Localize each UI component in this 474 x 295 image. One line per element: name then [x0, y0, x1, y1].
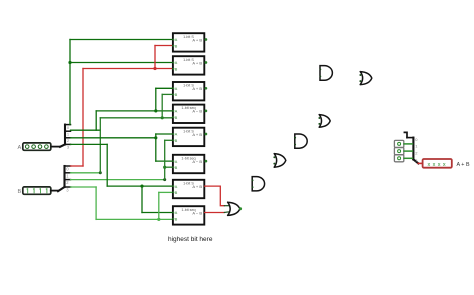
- junction net B1: [161, 116, 164, 119]
- subcircuit U2 (1-bit S): [172, 56, 204, 74]
- pin P2 (result bit 2): [394, 148, 403, 155]
- output dot U6: [205, 160, 208, 163]
- wire net B1 riser: [99, 118, 101, 173]
- svg-text:A: A: [175, 159, 178, 164]
- wire G7 input leg 2: [224, 211, 228, 214]
- wire net B0 vertical: [82, 69, 84, 167]
- wire net B3 to U8.B: [96, 218, 172, 220]
- svg-text:A: A: [175, 184, 178, 189]
- svg-text:highest bit here: highest bit here: [168, 236, 213, 243]
- wire combiner bit0 stub: [404, 132, 407, 137]
- svg-text:A: A: [175, 132, 178, 137]
- wire net B1 to U4.B: [100, 117, 172, 119]
- wire net A0 to U2.A: [70, 62, 173, 64]
- wire net B2 endpoint: [163, 178, 166, 181]
- svg-text:A: A: [175, 60, 178, 65]
- svg-text:B: B: [175, 92, 178, 97]
- splitter B bit numbers: [66, 167, 69, 193]
- wire net A3 to U8.A: [142, 212, 173, 214]
- svg-text:A + B: A + B: [192, 60, 202, 65]
- wire net A1 riser2: [155, 88, 157, 111]
- wire net B0 riser: [154, 46, 156, 69]
- junction net A1: [154, 109, 157, 112]
- wire net B1 to U3.B: [162, 93, 172, 95]
- svg-text:B: B: [18, 189, 22, 195]
- subcircuit U4 (1-bit seq): [172, 105, 204, 123]
- svg-text:A − B: A − B: [192, 109, 202, 114]
- wire net B0 to U1.B: [155, 45, 173, 47]
- splitter A (4-bit fanout): [60, 125, 71, 147]
- output dot U3: [205, 87, 208, 90]
- svg-text:B: B: [175, 115, 178, 120]
- wire combiner to output pin: [418, 162, 422, 164]
- combiner bit numbers: [415, 137, 418, 163]
- wire net A0 vertical: [69, 40, 71, 125]
- wire net B3 drop: [95, 187, 97, 219]
- wire net A3 drop: [106, 144, 108, 186]
- wire net B3 to U7.B: [159, 191, 173, 193]
- subcircuit U8 (1-bit seq): [172, 206, 204, 224]
- OR gate G2: [359, 72, 371, 85]
- wire net A1 to U3.A: [156, 87, 173, 89]
- wire net B2 to U5.B: [165, 139, 173, 141]
- subcircuit U5 (1-bit S): [172, 128, 204, 146]
- wire net B0 to U2.B: [155, 68, 173, 70]
- subcircuit U6 (1-bit seq): [172, 155, 204, 173]
- wire net B1 riser2: [161, 94, 163, 117]
- svg-text:A: A: [175, 210, 178, 215]
- output dot U4: [205, 110, 208, 113]
- junction net A2: [154, 136, 157, 139]
- wire net A2 to U5.A: [156, 133, 173, 135]
- svg-text:A + B: A + B: [192, 132, 202, 137]
- svg-text:B: B: [175, 43, 178, 48]
- splitter A bit numbers: [67, 125, 70, 150]
- wire net A0 to U1.A: [70, 39, 173, 41]
- svg-text:A + B: A + B: [192, 86, 202, 91]
- output dot U1: [205, 38, 208, 41]
- junction net B0: [153, 67, 156, 70]
- output pin A+B (error xxxx): [423, 159, 452, 168]
- svg-text:A − B: A − B: [192, 210, 202, 215]
- svg-text:A + B: A + B: [457, 162, 470, 168]
- junction net B2: [163, 166, 166, 169]
- wire P1 to combiner: [404, 143, 412, 145]
- wire net A2 to U6.A: [156, 160, 173, 162]
- input pin B (value 1111): [23, 187, 51, 194]
- junction net A0: [68, 61, 71, 64]
- junction net A3: [140, 185, 143, 188]
- wire P2 to combiner: [404, 150, 412, 152]
- svg-text:B: B: [175, 66, 178, 71]
- svg-text:A: A: [175, 86, 178, 91]
- wire net B3 riser: [158, 192, 160, 219]
- pin P3 (result bit 3): [394, 155, 403, 162]
- svg-text:A: A: [18, 145, 22, 151]
- svg-text:A + B: A + B: [192, 37, 202, 42]
- wire net A2 stub: [71, 137, 156, 139]
- junction net B3: [157, 218, 160, 221]
- wire net A1 riser: [95, 111, 97, 130]
- subcircuit U3 (1-bit S): [172, 82, 204, 100]
- wire net A3 stub: [71, 143, 108, 145]
- wire pin A to splitter: [52, 146, 61, 148]
- input pin A (value 0000): [23, 143, 51, 150]
- pin P1 (result bit 1): [394, 140, 403, 147]
- svg-text:xxxx: xxxx: [427, 162, 448, 168]
- subcircuit U7 (1-bit S): [172, 180, 204, 198]
- svg-text:B: B: [175, 165, 178, 170]
- output dot G7: [239, 207, 242, 210]
- wire net A3 drop2: [141, 186, 143, 212]
- wire net A1 stub: [71, 129, 101, 131]
- AND gate G4: [294, 134, 307, 148]
- AND gate G6: [252, 177, 265, 191]
- wire net A2 riser: [155, 134, 157, 161]
- svg-text:A − B: A − B: [192, 159, 202, 164]
- subcircuit U1 (1-bit S): [172, 33, 204, 51]
- OR gate G3: [318, 115, 330, 128]
- output dot U2: [205, 61, 208, 64]
- wire P3 to combiner: [404, 157, 412, 159]
- OR gate G7 (sum of U7/U8 outputs): [228, 202, 240, 215]
- splitter B (4-bit fanout): [58, 166, 71, 191]
- AND gate G1: [320, 66, 333, 81]
- svg-text:B: B: [175, 216, 178, 221]
- wire net B1 stub: [71, 172, 101, 174]
- wire U8 out: [205, 212, 225, 214]
- wire G7 input leg 1: [224, 205, 228, 207]
- svg-text:B: B: [175, 138, 178, 143]
- wire net B2 riser: [164, 140, 166, 179]
- wire net B1 endpoint: [99, 171, 102, 174]
- svg-text:A: A: [175, 37, 178, 42]
- wire net B0 horizontal: [83, 68, 155, 70]
- wire net B0 stub: [71, 165, 84, 167]
- combiner splitter (result bus): [407, 138, 418, 164]
- wire net A1 to U4.A: [96, 110, 172, 112]
- OR gate G5: [273, 154, 285, 168]
- wire U7 out: [205, 186, 225, 206]
- wire net B2 to U6.B: [165, 166, 173, 168]
- svg-text:A + B: A + B: [192, 184, 202, 189]
- output dot U5: [205, 133, 208, 136]
- svg-text:B: B: [175, 190, 178, 195]
- svg-text:A: A: [175, 109, 178, 114]
- wire pin B to splitter: [51, 190, 58, 192]
- wire net B2 stub: [71, 179, 165, 181]
- wire net B3 stub: [71, 186, 97, 188]
- wire net A3 to U7.A: [107, 185, 172, 187]
